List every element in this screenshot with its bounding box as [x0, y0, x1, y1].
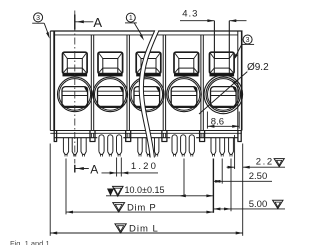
pole 4 wire clamp screw	[171, 87, 197, 108]
pole 3 wire-entry funnel	[136, 52, 161, 73]
pole divider wall 3	[163, 35, 165, 131]
pole 5 solder pins	[211, 138, 233, 157]
svg-text:3: 3	[36, 15, 40, 22]
pole 2 flange cutout	[97, 134, 123, 139]
flange bottom edge	[54, 137, 238, 139]
mounting foot 5	[199, 131, 205, 142]
pole 2 funnel slot dark bar	[98, 74, 123, 77]
svg-text:1: 1	[129, 15, 133, 22]
pole 5 max wire diameter circle	[204, 75, 243, 114]
dimension 10.0 pitch	[106, 159, 213, 213]
flange horizontal line mid	[50, 132, 241, 134]
mounting foot 2	[90, 131, 96, 142]
svg-text:A: A	[90, 162, 98, 176]
pole 3 wire clamp screw	[134, 87, 160, 108]
terminal block body outline top edge	[50, 31, 242, 35]
svg-text:3: 3	[246, 37, 250, 44]
dimension Dim L	[50, 144, 243, 236]
svg-text:Dim P: Dim P	[127, 203, 156, 214]
pole divider wall 1	[91, 35, 93, 131]
body right wall	[238, 31, 242, 131]
pole divider wall 4	[201, 35, 203, 131]
break line right curve	[143, 30, 159, 157]
dimension 2.50	[213, 159, 272, 184]
svg-text:2.2: 2.2	[256, 156, 274, 167]
pole 4 solder pins	[172, 135, 194, 157]
pole divider wall 2	[127, 35, 129, 131]
mounting foot 3	[125, 131, 131, 142]
dimension 1.20 pin width	[102, 158, 159, 177]
pole 5 funnel slot dark bar	[210, 74, 235, 77]
item balloon 3 top-left	[32, 13, 51, 39]
item balloon 3 top-right	[232, 35, 254, 61]
svg-text:2.50: 2.50	[249, 171, 268, 182]
dimension 4.3 top	[180, 8, 247, 58]
break line white gap	[139, 30, 159, 157]
mounting foot 1	[54, 131, 57, 142]
svg-text:10.0±0.15: 10.0±0.15	[125, 185, 165, 195]
pole 5 screw cavity rings	[206, 77, 241, 112]
pole 3 solder pins	[138, 138, 159, 157]
svg-text:Ø9.2: Ø9.2	[247, 62, 269, 73]
svg-text:1.20: 1.20	[131, 161, 158, 172]
item balloon 1 (break note)	[125, 13, 145, 41]
section marker A bottom	[75, 162, 99, 176]
mounting foot 4	[161, 131, 167, 142]
dimension Dim P	[66, 159, 213, 215]
pole 4 funnel slot dark bar	[174, 74, 199, 77]
pole 2 screw cavity rings	[93, 77, 128, 112]
pole 1 wire clamp screw	[62, 87, 88, 108]
svg-text:Fig. 1 and 1: Fig. 1 and 1	[10, 239, 50, 245]
svg-text:A: A	[93, 15, 102, 30]
pole 4 screw cavity rings	[167, 77, 202, 112]
pole 1 wire-entry funnel	[63, 52, 88, 73]
pole 4 wire-entry funnel	[174, 52, 199, 73]
svg-text:4.3: 4.3	[182, 8, 198, 19]
pole 3 screw cavity rings	[130, 77, 165, 112]
svg-text:5.00: 5.00	[249, 199, 268, 210]
flange horizontal line upper	[50, 130, 241, 132]
dimension diameter 9.2 leader	[199, 62, 269, 114]
pole 1 solder pins	[63, 138, 86, 157]
pole 5 wire clamp screw	[211, 87, 237, 108]
pole 1 screw cavity rings	[58, 77, 93, 112]
dimension 5.00	[213, 159, 285, 212]
section marker A top	[75, 15, 103, 31]
svg-text:8.6: 8.6	[211, 117, 224, 128]
pole 5 wire-entry funnel	[210, 52, 235, 73]
pole 1 funnel slot dark bar	[63, 74, 88, 77]
body left wall	[50, 31, 54, 131]
pole 2 wire clamp screw	[98, 87, 124, 108]
dimension 8.6	[207, 112, 239, 129]
dimension 2.2	[227, 135, 285, 169]
break line left curve	[139, 30, 155, 157]
pole 4 flange cutout	[170, 134, 196, 139]
pole 3 funnel slot dark bar	[136, 74, 161, 77]
pole 2 solder pins	[99, 135, 122, 157]
pole 2 wire-entry funnel	[98, 52, 123, 73]
section centerline A-A	[74, 11, 76, 164]
svg-text:Dim L: Dim L	[129, 224, 159, 235]
mounting foot 6	[237, 131, 241, 142]
